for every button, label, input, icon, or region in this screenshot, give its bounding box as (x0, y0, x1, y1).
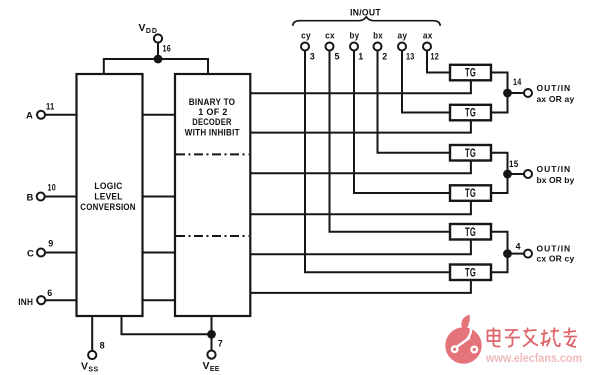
wire decoder control to TG6 (250, 280, 471, 293)
wire VDD top rail (104, 59, 208, 74)
svg-text:B: B (27, 192, 34, 203)
svg-text:BINARY TO: BINARY TO (189, 97, 236, 107)
wire TG4 output to node 15 (491, 174, 508, 193)
wire C logic-to-decoder (142, 252, 175, 254)
decoder section divider dash-dot 2 (176, 235, 249, 237)
wire input B (45, 196, 77, 198)
wire VEE jog from logic block (122, 316, 212, 334)
wire input C (45, 252, 76, 254)
wire A logic-to-decoder (142, 114, 175, 116)
pin 16 terminal circle VDD (154, 34, 162, 42)
watermark text dianzifashaoyou (488, 328, 578, 348)
svg-text:INH: INH (18, 297, 33, 308)
wire ay to TG2 input (402, 51, 450, 113)
brace IN/OUT group (293, 17, 441, 26)
svg-text:A: A (26, 110, 33, 121)
svg-text:TG: TG (465, 188, 476, 200)
node junction out 15 (503, 170, 512, 179)
transmission gate TG1 (450, 65, 491, 81)
svg-text:6: 6 (47, 288, 52, 298)
wire decoder control to TG2 (250, 120, 471, 132)
pin A input terminal circle (37, 111, 45, 119)
transmission gate TG3 (450, 145, 491, 161)
pin B input terminal circle (37, 193, 45, 201)
wire input INH (46, 299, 77, 301)
svg-text:TG: TG (465, 148, 476, 160)
node junction VEE (207, 330, 216, 339)
svg-text:8: 8 (100, 341, 105, 351)
svg-text:4: 4 (516, 241, 521, 251)
svg-text:7: 7 (218, 339, 223, 349)
wire TG5 output to node 4 (491, 232, 508, 254)
wire ax to TG1 input (427, 51, 450, 73)
svg-text:3: 3 (310, 51, 315, 61)
svg-text:1 OF 2: 1 OF 2 (198, 107, 228, 117)
svg-text:DECODER: DECODER (192, 117, 232, 127)
svg-text:CONVERSION: CONVERSION (80, 202, 136, 212)
pin by terminal circle (350, 43, 358, 51)
svg-text:16: 16 (163, 44, 172, 54)
decoder section divider dash-dot 1 (176, 153, 249, 155)
svg-text:15: 15 (509, 159, 519, 169)
pin 8 terminal circle VSS (88, 351, 96, 359)
transmission gate TG4 (450, 185, 491, 201)
pin 15 terminal circle (524, 170, 532, 178)
pin bx terminal circle (374, 43, 382, 51)
svg-text:ay: ay (398, 31, 408, 42)
wire TG6 output to node 4 (491, 254, 508, 273)
svg-text:cx OR cy: cx OR cy (537, 253, 575, 263)
wire node 15 to pin circle (508, 173, 525, 175)
svg-text:TG: TG (465, 108, 476, 120)
svg-text:ax OR ay: ax OR ay (537, 94, 575, 104)
svg-text:VSS: VSS (81, 360, 99, 373)
svg-text:TG: TG (465, 227, 476, 239)
wire decoder control to TG1 (250, 80, 471, 93)
svg-text:2: 2 (382, 51, 387, 61)
wire node 14 to pin circle (508, 92, 525, 94)
node junction VDD rail (154, 55, 163, 64)
svg-text:IN/OUT: IN/OUT (350, 8, 381, 18)
svg-text:TG: TG (465, 268, 476, 280)
svg-text:TG: TG (465, 68, 476, 80)
wire cx to TG5 input (330, 51, 451, 232)
pin INH input terminal circle (37, 296, 45, 304)
transmission gate TG2 (450, 105, 491, 121)
svg-text:bx: bx (373, 31, 383, 42)
svg-text:OUT/IN: OUT/IN (537, 83, 571, 93)
svg-text:10: 10 (48, 183, 57, 193)
svg-text:13: 13 (406, 51, 415, 61)
pin cy terminal circle (301, 43, 309, 51)
pin cx terminal circle (326, 43, 334, 51)
node junction out 4 (503, 249, 512, 258)
pin 7 terminal circle VEE (207, 351, 215, 359)
wire B logic-to-decoder (142, 196, 175, 198)
wire cy to TG6 input (305, 51, 450, 273)
wire input A (45, 114, 76, 116)
svg-text:by: by (350, 31, 360, 42)
svg-text:9: 9 (48, 239, 53, 249)
svg-text:VEE: VEE (203, 360, 220, 373)
pin 4 terminal circle (524, 250, 532, 258)
wire by to TG4 input (354, 51, 450, 193)
wire VDD stub (157, 43, 159, 59)
watermark logo elecfans (445, 315, 481, 364)
svg-text:LOGIC: LOGIC (94, 181, 123, 191)
block U1 logic level conversion (77, 74, 143, 316)
svg-text:12: 12 (431, 51, 440, 61)
wire INH logic-to-decoder (142, 299, 175, 301)
pin 14 terminal circle (524, 89, 532, 97)
wire VSS drop (91, 316, 93, 351)
svg-text:C: C (27, 249, 34, 260)
svg-text:OUT/IN: OUT/IN (537, 243, 571, 253)
transmission gate TG6 (450, 265, 491, 281)
wire bx to TG3 input (378, 51, 451, 153)
wire TG2 output to node 14 (491, 93, 508, 113)
svg-text:1: 1 (358, 51, 363, 61)
wire decoder control to TG4 (250, 201, 471, 214)
svg-text:14: 14 (513, 77, 522, 87)
pin C input terminal circle (37, 249, 45, 257)
svg-text:5: 5 (335, 51, 340, 61)
wire decoder control to TG5 (250, 240, 471, 255)
node junction out 14 (503, 89, 512, 98)
svg-text:bx OR by: bx OR by (537, 175, 575, 185)
svg-text:cy: cy (301, 31, 311, 42)
wire TG1 output to node 14 (491, 73, 508, 94)
block U2 binary 1-of-2 decoder (175, 74, 250, 316)
wire node 4 to pin circle (508, 253, 525, 255)
wire VEE drop (211, 316, 213, 350)
wire decoder control to TG3 (250, 161, 471, 174)
svg-text:OUT/IN: OUT/IN (537, 164, 571, 174)
svg-text:VDD: VDD (139, 22, 158, 35)
svg-text:www.elecfans.com: www.elecfans.com (485, 351, 582, 365)
svg-text:cx: cx (325, 31, 335, 42)
wire TG3 output to node 15 (491, 153, 508, 174)
pin ax terminal circle (423, 43, 431, 51)
svg-text:WITH INHIBIT: WITH INHIBIT (185, 128, 240, 138)
pin ay terminal circle (398, 43, 406, 51)
svg-text:LEVEL: LEVEL (94, 192, 123, 202)
svg-text:11: 11 (46, 102, 55, 112)
transmission gate TG5 (450, 224, 491, 240)
svg-text:ax: ax (423, 31, 433, 42)
